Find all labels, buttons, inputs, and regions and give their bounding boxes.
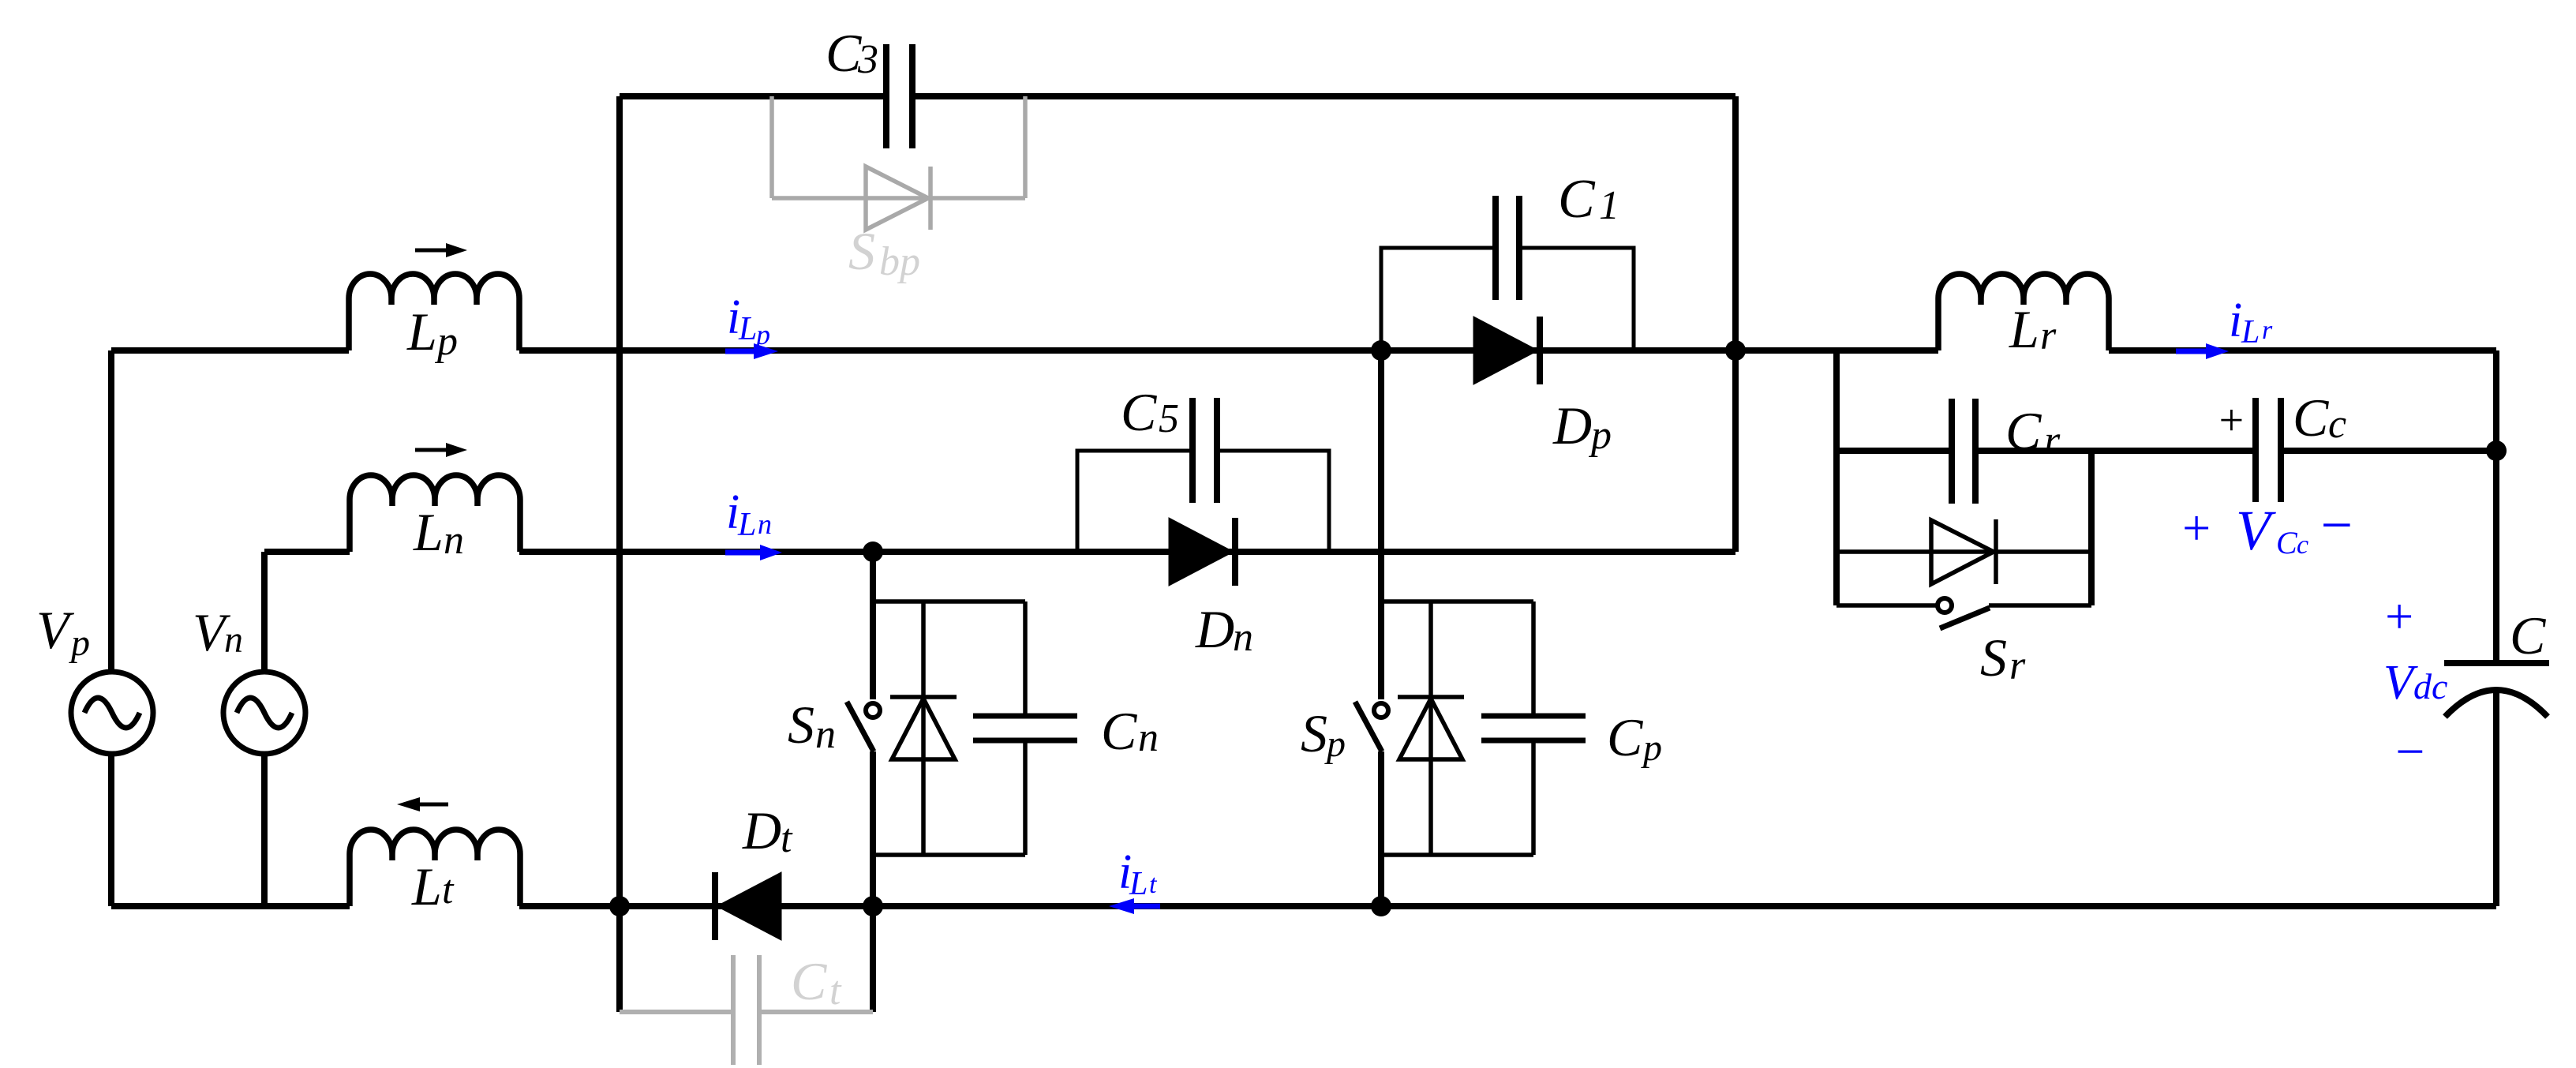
svg-text:L: L xyxy=(406,302,437,362)
svg-text:−: − xyxy=(2392,723,2428,781)
svg-text:L: L xyxy=(2009,299,2039,359)
svg-text:p: p xyxy=(1641,727,1662,769)
svg-text:C: C xyxy=(2293,388,2329,448)
svg-text:L: L xyxy=(738,311,757,347)
svg-text:V: V xyxy=(2236,499,2276,562)
svg-text:L: L xyxy=(2241,314,2260,350)
svg-text:n: n xyxy=(1138,715,1159,760)
svg-text:+: + xyxy=(2382,588,2416,644)
svg-text:C: C xyxy=(1558,169,1596,230)
svg-text:3: 3 xyxy=(857,37,878,82)
svg-text:dc: dc xyxy=(2413,666,2447,706)
svg-text:5: 5 xyxy=(1159,396,1179,441)
svg-text:C: C xyxy=(1101,701,1137,761)
svg-text:D: D xyxy=(1552,395,1592,455)
svg-text:L: L xyxy=(411,856,442,916)
svg-text:L: L xyxy=(737,507,756,543)
svg-text:D: D xyxy=(742,800,781,860)
svg-text:S: S xyxy=(1301,703,1327,763)
svg-text:r: r xyxy=(2040,313,2057,358)
svg-text:n: n xyxy=(758,508,772,540)
svg-text:S: S xyxy=(1980,628,2007,688)
svg-text:C: C xyxy=(826,23,862,83)
svg-text:n: n xyxy=(1233,615,1253,660)
svg-text:p: p xyxy=(754,319,770,350)
svg-text:S: S xyxy=(848,221,875,281)
svg-text:p: p xyxy=(434,319,458,364)
svg-text:p: p xyxy=(1588,413,1612,458)
svg-text:1: 1 xyxy=(1599,183,1619,228)
svg-text:r: r xyxy=(2044,418,2061,463)
svg-text:t: t xyxy=(781,816,793,861)
svg-text:n: n xyxy=(224,619,243,661)
svg-text:t: t xyxy=(1149,870,1158,899)
svg-text:C: C xyxy=(1607,707,1643,767)
svg-text:bp: bp xyxy=(879,239,920,284)
svg-text:+: + xyxy=(2179,500,2213,556)
svg-text:L: L xyxy=(1129,866,1148,902)
svg-text:n: n xyxy=(444,518,464,563)
svg-text:C: C xyxy=(2005,401,2042,461)
svg-text:c: c xyxy=(2297,530,2308,560)
svg-text:p: p xyxy=(69,622,90,664)
svg-text:n: n xyxy=(815,712,836,757)
svg-text:+: + xyxy=(2216,396,2246,445)
svg-text:D: D xyxy=(1195,599,1234,659)
svg-text:C: C xyxy=(791,951,827,1011)
svg-text:r: r xyxy=(2009,643,2026,688)
svg-text:C: C xyxy=(1121,382,1157,442)
svg-text:t: t xyxy=(829,969,842,1014)
svg-text:r: r xyxy=(2262,316,2273,345)
svg-text:L: L xyxy=(413,502,444,562)
svg-text:t: t xyxy=(442,868,455,912)
svg-text:i: i xyxy=(2229,294,2242,347)
svg-text:c: c xyxy=(2328,402,2346,447)
svg-text:C: C xyxy=(2276,525,2298,560)
svg-text:−: − xyxy=(2317,493,2356,556)
svg-text:S: S xyxy=(788,695,814,755)
svg-text:C: C xyxy=(2510,605,2546,665)
svg-text:p: p xyxy=(1324,723,1346,765)
